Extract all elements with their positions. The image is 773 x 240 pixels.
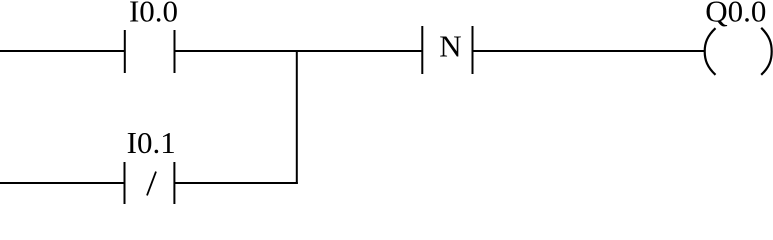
- svg-text:I0.0: I0.0: [129, 0, 178, 29]
- svg-text:I0.1: I0.1: [127, 125, 176, 160]
- svg-text:Q0.0: Q0.0: [705, 0, 766, 29]
- svg-text:N: N: [439, 29, 461, 64]
